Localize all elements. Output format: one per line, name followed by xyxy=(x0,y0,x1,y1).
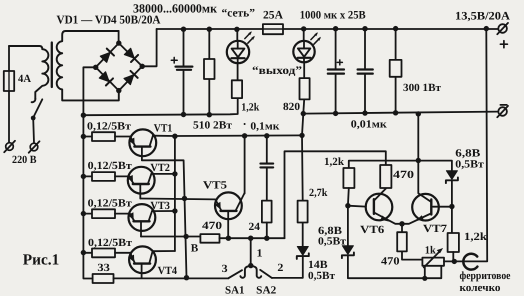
node rail HL2 xyxy=(301,26,306,31)
svg-text:VT2: VT2 xyxy=(150,162,170,174)
transistor VT1 xyxy=(129,129,157,160)
node minus-bus tap xyxy=(81,113,86,118)
wire collectors rail L1 xyxy=(174,136,176,251)
svg-text:510 2Вт: 510 2Вт xyxy=(193,119,233,131)
switch lever SB xyxy=(33,99,42,117)
resistor 820 xyxy=(300,78,310,99)
svg-text:470: 470 xyxy=(393,169,415,181)
switch contact left xyxy=(240,266,250,278)
plus mark output xyxy=(500,41,507,48)
ferrite ring xyxy=(463,254,477,270)
svg-text:1000 мк х 25В: 1000 мк х 25В xyxy=(300,9,366,21)
node busA C1 xyxy=(181,112,186,117)
node emitters VT6 VT7 xyxy=(399,221,404,226)
svg-text:300 1Вт: 300 1Вт xyxy=(403,82,442,94)
transformer T1 secondary winding xyxy=(57,31,119,100)
wire 470 bottom to potentiometer xyxy=(402,251,422,259)
wire VT3 base to node B xyxy=(141,236,200,238)
resistor R 0,12/5Vt no.4 xyxy=(83,252,92,254)
svg-text:0,5Вт: 0,5Вт xyxy=(318,236,347,248)
zener VD 6,8V right xyxy=(446,171,458,183)
terminal output minus xyxy=(498,107,507,116)
bridge rectifier VD1-VD4 diamond xyxy=(96,43,143,91)
transformer T1 core xyxy=(51,43,53,88)
switch contact right xyxy=(251,266,261,278)
wire pot right to node xyxy=(444,260,454,262)
wire VT2 base to VT5 xyxy=(140,198,215,201)
node B-bus VT5 xyxy=(226,236,231,241)
svg-text:0,12/5Вт: 0,12/5Вт xyxy=(88,160,133,172)
wire bridge plus to top rail xyxy=(142,29,156,66)
node VT7 collector xyxy=(449,204,454,209)
resistor R 0,12/5Vt no.2 xyxy=(83,175,92,177)
svg-text:1,2k: 1,2k xyxy=(464,231,488,243)
node rail 510 xyxy=(207,27,212,32)
LED HL1 "set" xyxy=(236,29,238,80)
svg-text:“выход”: “выход” xyxy=(252,65,302,77)
potentiometer 1k xyxy=(422,258,444,266)
node emitter R4 tap xyxy=(81,250,86,255)
svg-text:0,12/5Вт: 0,12/5Вт xyxy=(88,237,133,249)
transistor VT5 xyxy=(215,192,245,238)
feed wire from SA bus up and over to 470 load xyxy=(285,151,386,238)
diode VD2 top-right xyxy=(124,48,138,62)
transformer switch fixed contact hook xyxy=(32,99,36,103)
node bridge bottom xyxy=(116,88,121,93)
switch SA2 lever xyxy=(260,270,272,278)
wire bridge minus down left rail xyxy=(83,67,95,278)
resistor 24 xyxy=(262,201,272,223)
capacitor 0,1mk xyxy=(266,136,268,201)
wire VT5 collector riser xyxy=(243,136,245,194)
svg-text:1: 1 xyxy=(257,248,263,260)
wire secondary top to bridge xyxy=(118,31,120,43)
svg-text:Рис.1: Рис.1 xyxy=(23,251,60,268)
svg-text:1k: 1k xyxy=(425,245,437,257)
svg-text:0,01мк: 0,01мк xyxy=(351,118,388,130)
node emitter R2 tap xyxy=(81,174,86,179)
transformer T1 primary winding xyxy=(9,46,48,99)
node 1,2k bottom xyxy=(452,259,457,264)
svg-text:VD1 — VD4 50В/20А: VD1 — VD4 50В/20А xyxy=(57,12,161,26)
node busB vt7-line xyxy=(416,111,421,116)
node rail HL1 xyxy=(234,27,239,32)
svg-text:VT1: VT1 xyxy=(154,122,173,134)
transistor VT2 xyxy=(127,167,175,199)
svg-text:0,5Вт: 0,5Вт xyxy=(455,158,484,170)
diode VD4 bottom-right xyxy=(124,71,138,85)
svg-text:0,12/5Вт: 0,12/5Вт xyxy=(88,197,133,209)
resistor 33 xyxy=(93,274,114,283)
svg-text:13,5В/20А: 13,5В/20А xyxy=(455,11,511,23)
node B-bus pole xyxy=(248,236,253,241)
diode VD3 bottom-left xyxy=(99,71,113,85)
wire vt7 base line down xyxy=(417,114,419,161)
svg-text:SA1: SA1 xyxy=(225,284,245,296)
svg-text:2,7k: 2,7k xyxy=(309,187,328,199)
wire 820 node down to 2,7k and 14V xyxy=(272,114,304,278)
node busA 510 xyxy=(207,112,212,117)
node bridge left xyxy=(93,65,98,70)
svg-text:VT7: VT7 xyxy=(423,223,448,235)
resistor 300 1Vt xyxy=(395,29,397,113)
svg-text:VT6: VT6 xyxy=(360,224,385,236)
terminal input left xyxy=(6,143,14,151)
zener VD 6,8V left xyxy=(348,206,441,279)
svg-text:В: В xyxy=(191,242,199,254)
svg-text:820: 820 xyxy=(283,101,301,113)
resistor 1,2k right xyxy=(448,233,459,252)
resistor 2,7k xyxy=(298,201,308,223)
switch SA1 lever xyxy=(228,270,242,278)
svg-text:220 В: 220 В xyxy=(12,154,37,166)
wire plus rail xyxy=(157,28,498,30)
node emitter R3 tap xyxy=(81,211,86,216)
reference wire 1,2k top / zener / vt7 base xyxy=(349,161,452,171)
svg-text:0,5Вт: 0,5Вт xyxy=(308,270,336,282)
node VT6 base xyxy=(345,203,350,208)
node L2 bottom xyxy=(184,275,189,280)
terminal input right xyxy=(30,143,38,151)
node busB 820 xyxy=(301,111,306,116)
wire mains input left xyxy=(8,46,10,142)
svg-text:VT5: VT5 xyxy=(203,180,228,192)
svg-text:VT4: VT4 xyxy=(158,265,178,277)
wire minus bus B xyxy=(303,112,497,114)
zener VD 14V xyxy=(297,247,309,259)
transistor VT4 xyxy=(128,246,175,278)
svg-text:4А: 4А xyxy=(18,73,31,85)
wire emitter bus to 0,1mk node xyxy=(153,134,302,137)
svg-text:3: 3 xyxy=(222,263,229,275)
fuse FU1 4A xyxy=(4,71,14,91)
capacitor C1 plates xyxy=(176,67,193,70)
resistor 510 2Vt xyxy=(208,29,210,115)
capacitor C1 plus mark xyxy=(171,57,177,63)
transistor VT7 xyxy=(402,161,452,224)
svg-text:470: 470 xyxy=(202,220,223,232)
resistor 470 emitter xyxy=(401,224,403,232)
resistor R 0,12/5Vt no.1 xyxy=(83,136,92,138)
resistor 470 base drive xyxy=(200,234,219,243)
node 0,1mk line top xyxy=(299,133,304,138)
switch pole wire xyxy=(250,238,252,265)
svg-text:2: 2 xyxy=(277,262,284,274)
LED HL2 "vyhod" xyxy=(303,29,306,78)
svg-text:VT3: VT3 xyxy=(150,200,170,212)
svg-text:33: 33 xyxy=(97,262,110,274)
svg-text:SA2: SA2 xyxy=(256,284,277,296)
svg-text:колечко: колечко xyxy=(460,282,501,294)
wire sense from plus rail down right side xyxy=(454,29,487,262)
svg-text:470: 470 xyxy=(381,255,400,267)
svg-text:1,2k: 1,2k xyxy=(241,102,260,114)
node emitter R1 tap xyxy=(81,134,86,139)
wire pot left bottom to bus xyxy=(424,266,426,279)
wire base rail L2 xyxy=(142,160,187,277)
svg-text:1,2k: 1,2k xyxy=(324,156,345,168)
node rail C1 xyxy=(181,27,186,32)
diode VD1 top-left xyxy=(100,49,114,63)
node bridge top xyxy=(116,40,121,45)
resistor 1,2k (VT6 base) xyxy=(343,168,354,188)
wire minus bus A xyxy=(83,98,237,115)
terminal output plus xyxy=(498,24,507,33)
transistor VT6 xyxy=(366,189,402,224)
svg-text:25А: 25А xyxy=(263,9,284,21)
svg-text:0,12/5Вт: 0,12/5Вт xyxy=(87,120,132,132)
wire VT6 base xyxy=(348,205,366,208)
svg-text:“сеть”: “сеть” xyxy=(222,8,256,20)
capacitor C3 0,01mk xyxy=(364,29,366,114)
node bridge right xyxy=(140,64,145,69)
capacitor C2 1000mk x 25V xyxy=(335,29,337,114)
transistor VT3 xyxy=(128,204,175,236)
node B-bus 24 xyxy=(264,236,269,241)
minus mark output xyxy=(500,104,506,106)
svg-text:ферритовое: ферритовое xyxy=(460,270,511,282)
capacitor C1 38000-60000mk stems xyxy=(183,29,185,115)
svg-text:24: 24 xyxy=(249,221,261,233)
fuse FU2 25A xyxy=(263,24,283,34)
ink dot xyxy=(244,123,246,125)
wire switch to terminal xyxy=(32,118,35,143)
resistor 1,2k of HL1 xyxy=(232,80,242,98)
resistor R 0,12/5Vt no.3 xyxy=(83,213,92,215)
resistor 470 collector load VT6 xyxy=(380,165,391,188)
svg-text:0,1мк: 0,1мк xyxy=(250,121,280,133)
